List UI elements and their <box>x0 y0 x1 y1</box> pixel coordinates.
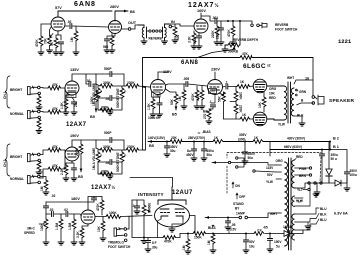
capacitor 8uF 30V trem <box>147 238 149 241</box>
ground bright CH1 <box>36 107 42 110</box>
ground standby <box>316 183 318 192</box>
svg-text:OUT: OUT <box>128 21 137 25</box>
svg-text:10K: 10K <box>258 101 262 108</box>
wire trem output top <box>88 197 102 203</box>
node B5 feed CH1 <box>95 109 98 113</box>
svg-text:230V: 230V <box>211 68 220 72</box>
resistor 1.5K cathode V4 <box>153 95 158 100</box>
node 14V cathode box V5 <box>209 89 217 94</box>
ground 100uF <box>344 188 350 191</box>
node 1.5V cathode box <box>67 93 76 98</box>
svg-text:REVERB: REVERB <box>149 37 163 41</box>
svg-text:2.2K: 2.2K <box>60 168 64 175</box>
node ON arrow <box>232 182 234 188</box>
svg-text:1M-A VOLUME: 1M-A VOLUME <box>92 84 96 106</box>
potentiometer TONE 500KB CH2 <box>121 150 123 152</box>
wire plates 6L6 to output transformer <box>267 86 284 120</box>
svg-text:50 u: 50 u <box>331 157 337 161</box>
ground output transformer <box>294 116 302 123</box>
svg-text:YLT: YLT <box>296 200 302 204</box>
ground bias pot <box>210 250 216 253</box>
capacitor .05 line <box>227 218 229 222</box>
svg-text:1.5M: 1.5M <box>68 223 72 230</box>
capacitor 25uF bypass V2A <box>196 36 201 38</box>
svg-text:70K: 70K <box>44 37 48 44</box>
svg-text:100K: 100K <box>109 211 117 215</box>
ground cathode V4 <box>150 114 156 117</box>
transformer reverb tank input coil <box>138 25 147 41</box>
ground 560 <box>109 50 115 53</box>
svg-text:12AX7½: 12AX7½ <box>91 184 116 191</box>
svg-text:IN: IN <box>171 20 175 24</box>
svg-text:500KB TONE: 500KB TONE <box>116 88 120 108</box>
capacitor 30uF 350V filter B5 <box>166 142 168 147</box>
svg-text:50V: 50V <box>267 173 274 177</box>
svg-text:INTENSITY: INTENSITY <box>138 192 164 197</box>
svg-text:470K: 470K <box>164 240 172 244</box>
svg-text:3M-C: 3M-C <box>27 227 35 231</box>
ground 470K <box>38 52 44 55</box>
jack tremolo foot switch <box>114 228 127 237</box>
jack speaker <box>312 95 324 105</box>
svg-text:5u: 5u <box>276 245 280 249</box>
ground tank output <box>162 41 168 44</box>
svg-text:FOOT SWITCH: FOOT SWITCH <box>275 28 298 32</box>
tube V1A pentode 6AN8 <box>51 17 65 31</box>
svg-text:180V: 180V <box>71 197 80 201</box>
transformer power HV secondary <box>292 160 295 188</box>
svg-text:50V: 50V <box>249 240 256 244</box>
svg-text:FOOT SWITCH: FOOT SWITCH <box>108 245 131 249</box>
tube V7 6L6GC upper <box>253 79 267 93</box>
wire vertical reverb return extension <box>143 88 146 151</box>
svg-text:4.7K: 4.7K <box>196 94 200 101</box>
svg-text:150V: 150V <box>274 240 282 244</box>
ground bias filter <box>267 249 273 252</box>
ground cathode CH1 <box>63 112 69 115</box>
switch trem footswitch line <box>212 158 244 167</box>
svg-text:1M: 1M <box>182 245 186 250</box>
potentiometer 70K hum balance <box>48 36 52 46</box>
spring reverb <box>147 30 163 32</box>
svg-text:160V: 160V <box>197 9 206 13</box>
svg-text:470K: 470K <box>96 203 100 211</box>
ground 350V 50uF <box>242 161 248 164</box>
svg-text:1221: 1221 <box>338 38 352 45</box>
wire B1 rail <box>270 149 330 151</box>
svg-text:.02: .02 <box>105 97 110 101</box>
svg-text:BLU: BLU <box>320 218 327 222</box>
resistor 270K trem inject <box>207 109 211 119</box>
resistor 1.5M osc a <box>60 214 62 219</box>
svg-text:10u: 10u <box>249 245 255 249</box>
svg-text:1K: 1K <box>50 41 54 46</box>
capacitor 350uF 50V filter <box>203 142 205 150</box>
resistor grid stopper normal CH1 <box>38 117 40 120</box>
transformer output secondary <box>291 88 294 116</box>
switch power OFF STAND BY <box>236 193 238 199</box>
svg-text:470K: 470K <box>35 39 39 47</box>
ground 1M <box>73 52 79 55</box>
resistor 1M bias divider <box>187 234 189 240</box>
resistor 1.5K cathode CH1 <box>66 95 72 99</box>
capacitor 220PF <box>220 21 222 28</box>
ground 1M bias <box>185 251 191 254</box>
svg-text:BLK: BLK <box>297 114 304 118</box>
svg-text:3.3K: 3.3K <box>76 231 80 238</box>
transformer output primary <box>284 86 287 120</box>
svg-text:.02: .02 <box>86 79 91 83</box>
capacitor 25uF bypass CH1 <box>72 98 74 103</box>
svg-text:1K: 1K <box>240 80 245 84</box>
ground cathode V2A <box>191 46 197 49</box>
svg-text:1M: 1M <box>40 186 44 191</box>
ground bypass V2A <box>196 46 202 49</box>
resistor 470K trem plate <box>101 197 103 201</box>
svg-text:500KB TONE: 500KB TONE <box>116 152 120 172</box>
wire plate V5 <box>214 72 216 80</box>
svg-text:56K: 56K <box>218 95 222 102</box>
ground volume tone CH1 <box>98 108 122 112</box>
resistor 470K trem coupling <box>144 237 163 239</box>
svg-text:.05: .05 <box>231 223 236 227</box>
ground bypass V4 <box>157 114 163 117</box>
svg-text:1.5M: 1.5M <box>55 223 59 230</box>
resistor 220K grid return lower <box>234 104 238 114</box>
transformer power 5V secondary <box>292 196 295 206</box>
svg-text:BIAS: BIAS <box>208 226 216 230</box>
transformer output core <box>288 82 291 123</box>
resistor grid stopper bright CH2 <box>38 160 40 162</box>
svg-text:.02: .02 <box>105 161 110 165</box>
svg-text:.02: .02 <box>67 20 72 24</box>
svg-text:BRIGHT: BRIGHT <box>10 155 22 159</box>
capacitor bypass CH2 <box>72 163 74 168</box>
ground 470K recovery <box>230 42 236 45</box>
svg-text:YLW: YLW <box>266 180 273 184</box>
wire trem plate run <box>46 202 88 210</box>
svg-text:B5: B5 <box>172 113 177 117</box>
tube V9 12AU7 dual triode <box>155 187 190 227</box>
resistor 560 cathode V1B <box>111 33 113 36</box>
wire plate V4 <box>158 72 168 80</box>
resistor 4.7K divider <box>201 86 203 90</box>
wire plate V2A <box>201 13 214 21</box>
svg-text:SPEAKER: SPEAKER <box>329 98 355 104</box>
capacitor 350V 50uF filter 305V <box>244 142 246 153</box>
ground heater top <box>315 194 317 196</box>
node mix junction CH1 <box>142 86 144 88</box>
svg-text:270: 270 <box>203 113 207 119</box>
svg-text:470K: 470K <box>191 93 195 101</box>
svg-text:220P: 220P <box>216 31 220 39</box>
svg-text:1AMP: 1AMP <box>236 212 246 216</box>
svg-text:10K: 10K <box>97 225 101 232</box>
ground bypass CH2 <box>71 178 77 181</box>
svg-text:6L6GC: 6L6GC <box>243 63 266 70</box>
node B5 feed CH2 <box>80 169 83 173</box>
svg-text:1M: 1M <box>178 96 182 101</box>
svg-text:16: 16 <box>305 77 309 81</box>
svg-text:500P: 500P <box>104 131 112 135</box>
tube V5 pentode 6AN8 phase inverter <box>208 80 223 95</box>
svg-text:560: 560 <box>103 45 109 49</box>
ground speed pot <box>43 242 49 245</box>
wire rectifier output row <box>295 183 336 188</box>
svg-text:1M: 1M <box>70 37 74 42</box>
svg-text:220K: 220K <box>211 30 215 38</box>
svg-text:BLU: BLU <box>320 207 327 211</box>
capacitor 10uF 50V bias <box>245 234 247 241</box>
ground 8uF <box>191 158 197 161</box>
capacitor 100uF 6V bypass V4 <box>158 97 160 103</box>
transformer reverb tank output coil <box>163 24 170 41</box>
ground 500 <box>172 40 178 43</box>
svg-text:50u: 50u <box>207 153 213 157</box>
svg-text:1.4V: 1.4V <box>153 93 159 97</box>
ground cathode CH2 <box>63 178 69 181</box>
svg-text:8 F: 8 F <box>152 241 157 245</box>
ground 220K <box>214 42 220 45</box>
resistor grid stopper bright CH1 <box>38 94 40 96</box>
ground volume tone CH2 <box>98 172 122 176</box>
svg-text:REVERB DEPTH: REVERB DEPTH <box>233 38 259 42</box>
transformer power primary coil <box>285 162 288 246</box>
svg-text:1K: 1K <box>242 113 247 117</box>
ground filter B5 <box>164 154 170 157</box>
svg-text:SPEED: SPEED <box>24 231 36 235</box>
svg-text:6AN8: 6AN8 <box>74 1 96 8</box>
resistor 1M grid V5 <box>183 84 185 90</box>
ground normal CH1 <box>36 131 42 134</box>
svg-text:RED: RED <box>269 96 276 100</box>
node voltage selector contact <box>255 171 276 172</box>
resistor 3.3K cathode V2A <box>193 31 195 33</box>
svg-text:ORG: ORG <box>276 159 284 163</box>
svg-text:.005: .005 <box>183 77 189 81</box>
svg-text:190V: 190V <box>70 134 79 138</box>
svg-text:.02: .02 <box>64 208 69 212</box>
wire bias row <box>180 233 285 235</box>
resistor 100K grid return upper <box>235 87 237 92</box>
svg-text:1.5V: 1.5V <box>68 94 74 98</box>
svg-text:B5: B5 <box>149 144 154 148</box>
svg-text:12AX7: 12AX7 <box>66 122 87 128</box>
transformer power core <box>289 158 292 250</box>
svg-text:135V: 135V <box>70 68 79 72</box>
ground bypass cap <box>58 52 64 55</box>
resistor 500 grid recovery <box>174 24 176 27</box>
ground 1M V5 <box>181 106 187 109</box>
svg-text:50K: 50K <box>170 98 174 105</box>
svg-text:500: 500 <box>176 34 180 40</box>
svg-text:150K: 150K <box>194 236 202 240</box>
svg-text:140V(115V): 140V(115V) <box>148 136 165 140</box>
capacitor cathode bypass <box>58 42 63 44</box>
tube V8 6L6GC lower <box>253 112 267 126</box>
diode rectifier vertical <box>328 142 330 170</box>
svg-text:B5: B5 <box>90 115 95 119</box>
ground bright CH2 <box>36 172 42 175</box>
potentiometer TONE 500KB CH1 <box>121 86 123 88</box>
svg-text:B5: B5 <box>78 175 83 179</box>
svg-text:12AU7: 12AU7 <box>172 190 193 196</box>
svg-text:STAND: STAND <box>233 202 244 206</box>
wire plate V3A <box>72 74 96 82</box>
ground 8uF trem <box>145 249 151 252</box>
wire plate V3B <box>72 140 96 148</box>
resistor 150K bias <box>193 232 206 236</box>
wire long reverb return bus <box>143 58 314 88</box>
potentiometer VOLUME 1M-A CH2 <box>97 150 99 152</box>
svg-text:BLK: BLK <box>320 213 327 217</box>
ground 220PF <box>218 42 224 45</box>
resistor 22K cathode CH2 <box>66 161 72 165</box>
capacitor .02 osc C3 <box>66 211 68 216</box>
ground .1 trem <box>134 211 140 214</box>
ground 12AU7 cathodes <box>158 219 184 238</box>
svg-text:NORMAL: NORMAL <box>10 112 24 116</box>
wire plate V1A to top rail <box>58 11 112 17</box>
wire vertical mix bus CH2 to V4 grid <box>145 88 147 151</box>
svg-text:ON: ON <box>235 184 240 188</box>
resistor 56K tail V5 <box>219 92 224 95</box>
potentiometer VOLUME 1M-A CH1 <box>97 86 99 88</box>
svg-text:.02: .02 <box>49 208 54 212</box>
svg-text:ORG: ORG <box>269 87 277 91</box>
wire mains fuse line <box>205 213 279 218</box>
resistor 470K <box>232 21 234 26</box>
svg-text:6AN8: 6AN8 <box>181 60 199 66</box>
ground 6.3V center tap <box>307 222 309 226</box>
resistor 50K plate V4 <box>166 89 177 94</box>
svg-text:220K: 220K <box>75 148 79 156</box>
svg-text:GRN: GRN <box>299 90 307 94</box>
ground bypass CH1 <box>71 112 77 115</box>
svg-text:280V(275V): 280V(275V) <box>188 136 205 140</box>
tube V1B triode 6AN8 <box>109 21 122 34</box>
svg-text:B6: B6 <box>130 10 135 14</box>
ground 1K cathode <box>53 52 59 55</box>
ground bias cap <box>243 250 249 253</box>
wire 12AU7 plate out <box>190 216 196 234</box>
wire plate V1B up and arrow to B6 <box>115 11 128 21</box>
tube V2A triode 12AX7 reverb recovery <box>194 19 208 33</box>
capacitor 350V 100uF <box>344 172 349 174</box>
capacitor 5uF 150V bias filter <box>269 234 271 239</box>
wire B+ distribution rail <box>148 141 330 143</box>
svg-text:10K: 10K <box>269 92 276 96</box>
resistor 220K plate CH2 <box>80 140 82 144</box>
ground .05 <box>225 227 231 230</box>
svg-text:100K: 100K <box>40 223 44 231</box>
capacitor 350uF 50V filter B1 <box>321 150 323 155</box>
node BLU 6.3V <box>295 208 317 230</box>
svg-text:-65: -65 <box>263 226 268 230</box>
svg-text:25u: 25u <box>74 101 78 107</box>
svg-text:22K: 22K <box>171 136 178 140</box>
svg-text:TREMOLO: TREMOLO <box>108 241 124 245</box>
svg-text:280V: 280V <box>110 5 119 9</box>
resistor 470K divider <box>196 86 198 90</box>
svg-text:YLW: YLW <box>278 123 285 127</box>
svg-text:450V: 450V <box>186 153 194 157</box>
svg-text:NORMAL: NORMAL <box>10 177 24 181</box>
resistor 100K plate load CH1 <box>94 92 98 102</box>
svg-text:470K: 470K <box>227 29 231 37</box>
resistor 10K screen <box>263 92 265 97</box>
svg-text:57V: 57V <box>55 6 62 10</box>
svg-text:1M: 1M <box>207 240 211 245</box>
capacitor 8uF 450V filter <box>193 142 195 150</box>
ground 270K <box>206 121 212 124</box>
wire 12AU7 plate feed <box>130 178 173 188</box>
tube V4 triode 6AN8 driver <box>151 80 166 95</box>
switch standby dashed <box>320 157 321 183</box>
jack reverb in <box>169 25 174 28</box>
svg-text:100K: 100K <box>239 92 243 100</box>
resistor 10K trem <box>102 217 104 222</box>
resistor 1.5M osc b <box>73 214 75 219</box>
wire NFB bus to speaker <box>294 58 313 105</box>
wire B2 to transformer <box>270 142 330 157</box>
ground intensity pot <box>143 238 145 241</box>
resistor 1M normal CH2 <box>40 177 46 181</box>
ground 1M CH2 <box>43 192 49 195</box>
node 1.4V cathode box V4 <box>152 92 161 97</box>
tube V3B triode 12AX7 CH2 <box>65 147 79 161</box>
svg-text:BRN: BRN <box>299 174 307 178</box>
svg-text:14V: 14V <box>210 90 215 94</box>
wire osc network <box>46 214 81 216</box>
svg-text:1M-A VOLUME: 1M-A VOLUME <box>92 148 96 170</box>
transformer power 6.3V secondary <box>292 214 295 240</box>
svg-text:.02: .02 <box>51 194 56 198</box>
svg-text:100u: 100u <box>350 173 357 177</box>
svg-text:115V: 115V <box>266 166 274 170</box>
diode rectifier horizontal <box>335 180 341 186</box>
svg-text:B 2: B 2 <box>333 137 339 141</box>
wire grid V1A left <box>41 24 61 40</box>
svg-text:1.5K: 1.5K <box>147 103 151 110</box>
svg-text:50u: 50u <box>248 156 254 160</box>
svg-text:-BIAS: -BIAS <box>202 130 211 134</box>
svg-text:12AX7½: 12AX7½ <box>188 2 220 9</box>
potentiometer 500KB intensity <box>132 200 144 205</box>
capacitor .1 trem <box>136 200 138 206</box>
capacitor cathode bypass V1B <box>107 34 115 40</box>
ground 10K trem <box>100 238 106 241</box>
svg-text:OFF: OFF <box>239 195 245 199</box>
wire dashed footswitch cable <box>226 154 228 193</box>
svg-text:YLT: YLT <box>297 188 303 192</box>
wire tank output to recovery grid <box>169 24 194 26</box>
tube V3A triode 12AX7 CH1 <box>65 81 79 95</box>
svg-text:1N-1E: 1N-1E <box>283 225 292 229</box>
resistor 3.3K cathode trem <box>82 224 88 228</box>
svg-text:BRIGHT: BRIGHT <box>10 88 22 92</box>
ground 470K divider <box>194 106 200 109</box>
resistor 1K cathode <box>54 38 58 48</box>
svg-text:47K: 47K <box>242 52 249 56</box>
svg-text:30u: 30u <box>170 149 176 153</box>
jack reverb out <box>128 25 138 30</box>
svg-text:660V (630V): 660V (630V) <box>284 145 302 149</box>
svg-text:x2: x2 <box>267 64 271 68</box>
svg-text:RED: RED <box>296 155 303 159</box>
svg-text:430V (300V): 430V (300V) <box>287 137 305 141</box>
node standby contacts <box>308 182 322 184</box>
